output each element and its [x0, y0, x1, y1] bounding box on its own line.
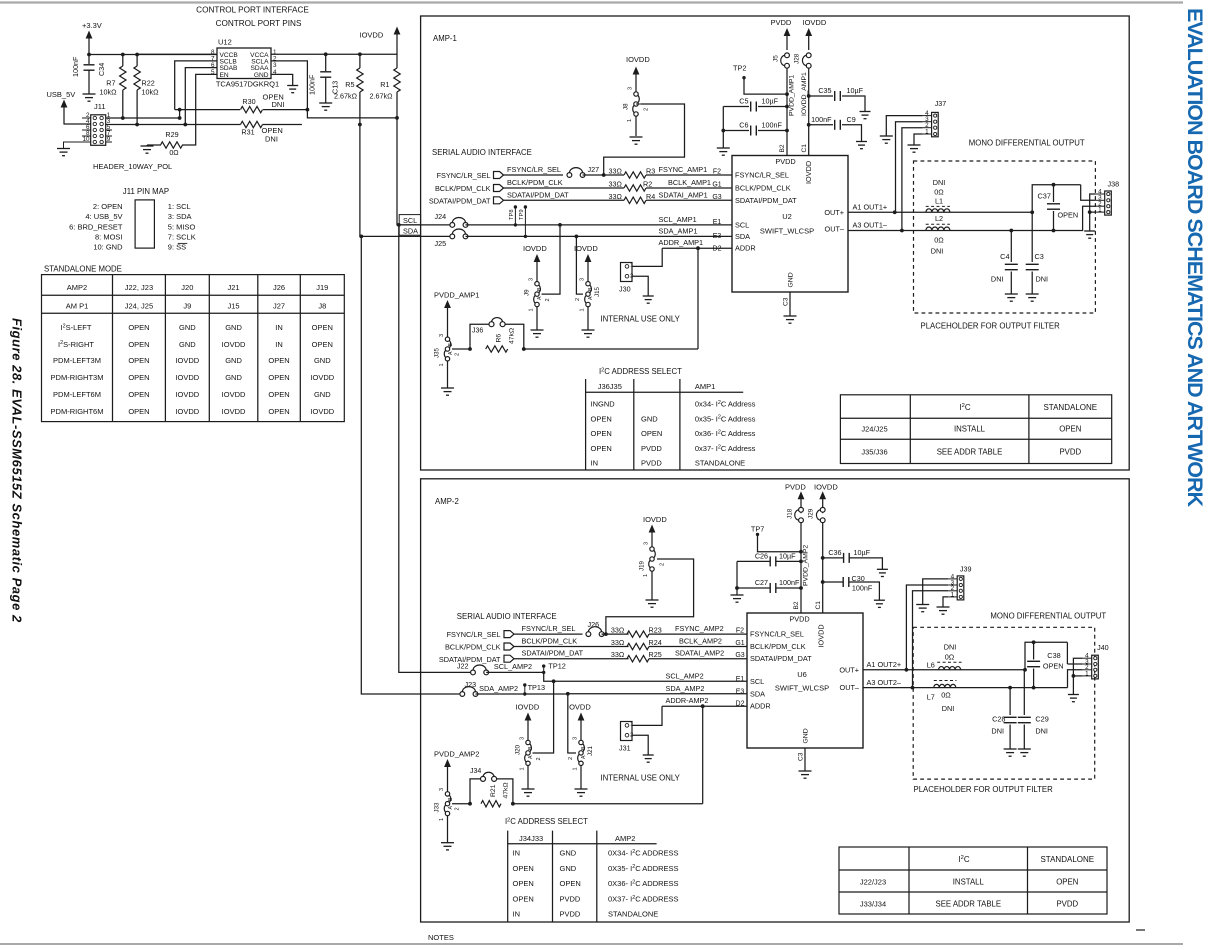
- svg-text:U12: U12: [218, 38, 232, 47]
- svg-text:PLACEHOLDER FOR OUTPUT FILTER: PLACEHOLDER FOR OUTPUT FILTER: [914, 785, 1054, 794]
- capacitor C35 10uF: [807, 94, 811, 98]
- svg-text:INSTALL: INSTALL: [953, 878, 985, 887]
- svg-text:SWIFT_WLCSP: SWIFT_WLCSP: [760, 227, 814, 236]
- svg-text:J22, J23: J22, J23: [125, 283, 153, 292]
- wire SDA jog to chip E3: [568, 693, 747, 695]
- svg-text:0x34- I2C Address: 0x34- I2C Address: [695, 400, 756, 409]
- svg-text:ADDR: ADDR: [735, 244, 756, 253]
- svg-text:DNI: DNI: [1036, 275, 1049, 284]
- svg-text:SCL_AMP2: SCL_AMP2: [494, 662, 532, 671]
- wire J40 pin2 from OUT2-: [1068, 670, 1083, 688]
- svg-text:3: 3: [573, 737, 579, 740]
- svg-text:J29: J29: [808, 508, 815, 519]
- svg-text:J26: J26: [588, 620, 600, 629]
- AMP-1 section box: [421, 16, 1130, 470]
- svg-text:SDATAI_AMP2: SDATAI_AMP2: [675, 649, 724, 658]
- svg-text:SCL: SCL: [735, 220, 749, 229]
- wire J37 pin3 to OUT1+: [896, 122, 923, 213]
- capacitor C30 100nF: [821, 580, 825, 584]
- svg-text:C4: C4: [1000, 252, 1009, 261]
- svg-text:IOVDD_AMP1: IOVDD_AMP1: [801, 72, 808, 116]
- svg-text:J30: J30: [619, 285, 631, 294]
- svg-text:0x37- I2C Address: 0x37- I2C Address: [695, 444, 756, 453]
- wire R30 row: [175, 109, 240, 111]
- svg-text:SDA: SDA: [750, 689, 765, 698]
- svg-text:3: 3: [439, 334, 445, 337]
- svg-text:DNI: DNI: [272, 100, 285, 109]
- wire SCL jog to chip E1: [544, 672, 747, 681]
- svg-text:ADDR_AMP1: ADDR_AMP1: [659, 238, 704, 247]
- svg-text:AMP1: AMP1: [695, 382, 715, 391]
- svg-text:J40: J40: [1097, 643, 1109, 652]
- svg-text:J24: J24: [435, 212, 447, 221]
- svg-text:OPEN: OPEN: [591, 429, 612, 438]
- svg-text:SDA: SDA: [735, 232, 750, 241]
- svg-text:J35: J35: [434, 347, 441, 358]
- svg-text:R5: R5: [345, 80, 354, 89]
- svg-text:OPEN: OPEN: [1058, 211, 1079, 220]
- svg-text:B: B: [528, 746, 534, 750]
- ground under C13: [319, 102, 332, 104]
- svg-text:G1: G1: [735, 640, 744, 647]
- svg-text:L1: L1: [935, 197, 943, 206]
- svg-text:INTERNAL USE ONLY: INTERNAL USE ONLY: [601, 315, 681, 324]
- svg-text:IOVDD: IOVDD: [574, 244, 598, 253]
- svg-text:100nF: 100nF: [779, 578, 800, 587]
- svg-text:A1 OUT2+: A1 OUT2+: [867, 660, 902, 669]
- wire U12 GND pin to ground: [271, 74, 293, 85]
- svg-text:CONTROL PORT PINS: CONTROL PORT PINS: [216, 19, 302, 28]
- svg-text:STANDALONE: STANDALONE: [695, 459, 745, 468]
- svg-text:1: 1: [630, 722, 633, 728]
- svg-text:NOTES: NOTES: [428, 933, 454, 942]
- svg-text:SCL: SCL: [750, 677, 764, 686]
- svg-text:A: A: [537, 296, 543, 300]
- svg-text:0X36- I2C ADDRESS: 0X36- I2C ADDRESS: [608, 879, 679, 888]
- svg-text:J36: J36: [472, 328, 483, 335]
- capacitor C29 DNI: [1023, 670, 1025, 715]
- svg-text:TP9: TP9: [519, 209, 525, 220]
- wire PVDD_AMP1 rail: [786, 68, 788, 156]
- svg-text:J33/J34: J33/J34: [860, 900, 886, 909]
- svg-text:STANDALONE MODE: STANDALONE MODE: [44, 265, 122, 274]
- svg-text:R1: R1: [380, 80, 389, 89]
- ground under J15: [587, 307, 589, 331]
- svg-text:J15: J15: [594, 286, 601, 297]
- wire SCL drop to AMP-2: [397, 223, 401, 227]
- wire OUT1+ from U2: [848, 211, 1032, 213]
- svg-text:IN: IN: [591, 459, 599, 468]
- svg-text:J26: J26: [273, 283, 285, 292]
- ground under J21: [580, 765, 582, 789]
- svg-text:100nF: 100nF: [852, 583, 873, 592]
- svg-text:CONTROL PORT INTERFACE: CONTROL PORT INTERFACE: [196, 6, 309, 15]
- resistor R24 33ohm: [514, 646, 629, 648]
- svg-text:PDM-LEFT3M: PDM-LEFT3M: [53, 356, 101, 365]
- svg-text:0x36- I2C Address: 0x36- I2C Address: [695, 429, 756, 438]
- svg-text:SERIAL AUDIO INTERFACE: SERIAL AUDIO INTERFACE: [457, 612, 557, 621]
- capacitor C34: [88, 55, 90, 65]
- svg-text:PVDD_AMP2: PVDD_AMP2: [803, 545, 810, 586]
- svg-text:OPEN: OPEN: [591, 414, 612, 423]
- svg-text:+3.3V: +3.3V: [82, 21, 102, 30]
- svg-text:47kΩ: 47kΩ: [503, 782, 510, 798]
- svg-text:GND: GND: [225, 356, 242, 365]
- svg-text:3: 3: [628, 87, 634, 90]
- svg-text:2: 2: [455, 807, 461, 810]
- wire SCL row from J11 pin1: [106, 117, 180, 119]
- svg-text:J18: J18: [787, 508, 794, 519]
- svg-text:BCLK/PDM_CLK: BCLK/PDM_CLK: [522, 637, 578, 646]
- svg-text:C34: C34: [97, 63, 106, 76]
- ground under J9: [536, 307, 538, 331]
- capacitor C6 100nF: [785, 129, 789, 133]
- svg-text:IOVDD: IOVDD: [222, 390, 246, 399]
- svg-text:3: 3: [580, 278, 586, 281]
- svg-text:R24: R24: [649, 638, 662, 647]
- svg-text:0Ω: 0Ω: [934, 188, 944, 197]
- wire J38 pins 4 and 1 to ground: [1090, 194, 1096, 231]
- ground under J19: [646, 599, 659, 601]
- svg-text:A1 OUT1+: A1 OUT1+: [853, 203, 888, 212]
- svg-text:A3 OUT2–: A3 OUT2–: [867, 678, 902, 687]
- svg-text:C36: C36: [828, 548, 841, 557]
- wire OUT2- from U6: [863, 687, 1068, 689]
- J11 pin map rectangle: [135, 200, 154, 248]
- svg-text:1: 1: [439, 363, 445, 366]
- svg-text:I2C: I2C: [958, 855, 969, 864]
- dashed placeholder box AMP2: [913, 627, 1094, 779]
- svg-text:6: BRD_RESET: 6: BRD_RESET: [69, 222, 123, 231]
- svg-text:1: 1: [439, 818, 445, 821]
- svg-text:OPEN: OPEN: [268, 407, 289, 416]
- AMP-2 section box: [421, 479, 1130, 922]
- svg-text:2: 2: [660, 563, 666, 566]
- jumper J18: [795, 510, 799, 520]
- svg-text:1: 1: [580, 308, 586, 311]
- svg-text:J34: J34: [470, 768, 481, 775]
- svg-text:B: B: [448, 797, 454, 801]
- svg-text:J39: J39: [960, 565, 972, 574]
- svg-text:INSTALL: INSTALL: [954, 425, 986, 434]
- resistor R29 0ohm: [161, 142, 183, 148]
- wire J30 pin1 to ADDR: [632, 248, 662, 266]
- resistor R2 33ohm: [504, 187, 625, 189]
- svg-text:SDATAI/PDM_DAT: SDATAI/PDM_DAT: [522, 649, 584, 658]
- wire SDA row from J11 pin3: [106, 124, 241, 126]
- svg-text:10µF: 10µF: [762, 97, 779, 106]
- op-amp U6 SWIFT_WLCSP: [747, 613, 863, 748]
- svg-text:C3: C3: [783, 297, 790, 306]
- svg-text:E1: E1: [713, 219, 722, 226]
- op-amp U2 SWIFT_WLCSP: [732, 156, 848, 293]
- svg-text:GND: GND: [179, 340, 196, 349]
- svg-text:BCLK/PDM_CLK: BCLK/PDM_CLK: [750, 642, 806, 651]
- svg-text:SDATAI/PDM_DAT: SDATAI/PDM_DAT: [750, 654, 812, 663]
- wire J9 tap to SCL: [542, 225, 561, 294]
- jumper J15 pull-up SDA: [590, 285, 592, 293]
- wire J30 pin2 to ground: [632, 276, 648, 296]
- wire J39 pin1 to ground: [943, 597, 948, 607]
- svg-text:PDM-RIGHT6M: PDM-RIGHT6M: [51, 407, 104, 416]
- svg-text:7: SCLK: 7: SCLK: [168, 232, 196, 241]
- svg-text:DNI: DNI: [991, 727, 1004, 736]
- J11 right stub wires pins 5 7 9: [106, 129, 112, 131]
- svg-text:PVDD: PVDD: [771, 18, 792, 27]
- svg-text:OPEN: OPEN: [128, 407, 149, 416]
- svg-text:33Ω: 33Ω: [609, 167, 623, 176]
- svg-text:2.67kΩ: 2.67kΩ: [370, 92, 394, 101]
- svg-text:10µF: 10µF: [779, 551, 796, 560]
- svg-text:F2: F2: [736, 628, 744, 635]
- wire J40 pins 4 and 1 to ground: [1073, 658, 1082, 694]
- resistor R22 10k: [135, 53, 139, 57]
- wire J8 to FSYNC net: [635, 116, 637, 136]
- svg-text:IN: IN: [275, 340, 283, 349]
- svg-text:DNI: DNI: [991, 275, 1004, 284]
- svg-text:10µF: 10µF: [847, 86, 864, 95]
- svg-text:G3: G3: [735, 652, 744, 659]
- wire J40 pin3 from C38 rail: [1066, 642, 1068, 664]
- jumper J27: [504, 174, 564, 176]
- svg-text:2: 2: [568, 757, 574, 760]
- svg-text:3: 3: [520, 737, 526, 740]
- svg-text:E3: E3: [736, 688, 745, 695]
- svg-text:R21: R21: [490, 784, 497, 797]
- svg-text:USB_5V: USB_5V: [47, 90, 76, 99]
- svg-text:D2: D2: [713, 246, 722, 253]
- svg-text:100nF: 100nF: [308, 74, 317, 95]
- svg-text:SDA_AMP2: SDA_AMP2: [666, 684, 705, 693]
- svg-text:4: USB_5V: 4: USB_5V: [85, 212, 122, 221]
- svg-text:GND: GND: [803, 728, 810, 743]
- svg-text:AM P1: AM P1: [66, 301, 89, 310]
- svg-text:AMP-1: AMP-1: [433, 34, 457, 43]
- svg-text:GND: GND: [254, 72, 269, 79]
- resistor R7 10k: [121, 53, 125, 57]
- svg-text:PVDD: PVDD: [1056, 900, 1078, 909]
- jumper J33: [449, 795, 451, 803]
- svg-text:8: MOSI: 8: MOSI: [95, 232, 123, 241]
- svg-text:C37: C37: [1038, 192, 1051, 201]
- svg-text:PVDD: PVDD: [1059, 448, 1081, 457]
- svg-text:GND: GND: [560, 864, 577, 873]
- svg-text:C35: C35: [818, 86, 831, 95]
- svg-text:I2S-RIGHT: I2S-RIGHT: [58, 340, 94, 349]
- node SCL box label: [399, 215, 420, 225]
- svg-text:1: 1: [573, 767, 579, 770]
- wire J39 pin2 to OUT2-: [913, 591, 949, 688]
- svg-text:IOVDD: IOVDD: [310, 373, 334, 382]
- connector J39: [957, 576, 964, 600]
- svg-text:L2: L2: [935, 214, 943, 223]
- svg-text:R4: R4: [646, 192, 655, 201]
- svg-text:C29: C29: [1035, 715, 1048, 724]
- svg-text:OPEN: OPEN: [513, 864, 534, 873]
- svg-text:AMP-2: AMP-2: [435, 497, 459, 506]
- svg-text:PVDD: PVDD: [560, 910, 581, 919]
- svg-text:FSYNC/LR_SEL: FSYNC/LR_SEL: [437, 171, 491, 180]
- jumper J8: [638, 95, 640, 103]
- svg-text:DNI: DNI: [1035, 727, 1048, 736]
- test point TP12: [542, 664, 545, 667]
- svg-text:J9: J9: [183, 301, 191, 310]
- capacitor C26 10uF: [799, 560, 803, 564]
- svg-text:J36J35: J36J35: [598, 382, 622, 391]
- svg-text:GND: GND: [225, 373, 242, 382]
- svg-text:OPEN: OPEN: [268, 390, 289, 399]
- wire OUT1- from U2: [848, 230, 1054, 232]
- wire ADDR to R6 row: [696, 246, 700, 250]
- svg-text:D2: D2: [736, 701, 745, 708]
- svg-text:OUT+: OUT+: [824, 208, 844, 217]
- svg-text:GND: GND: [641, 414, 658, 423]
- svg-text:SEE ADDR TABLE: SEE ADDR TABLE: [937, 448, 1003, 457]
- svg-text:A3 OUT1–: A3 OUT1–: [853, 221, 888, 230]
- svg-text:5: MISO: 5: MISO: [168, 222, 196, 231]
- svg-text:J11: J11: [94, 102, 106, 111]
- wire J39 pin3 to OUT2+: [906, 585, 948, 670]
- svg-text:SDA: SDA: [403, 226, 418, 235]
- svg-text:10µF: 10µF: [854, 548, 871, 557]
- resistor R4 33ohm: [504, 199, 625, 201]
- svg-text:FSYNC/LR_SEL: FSYNC/LR_SEL: [750, 630, 804, 639]
- svg-text:33Ω: 33Ω: [611, 638, 625, 647]
- svg-text:OPEN: OPEN: [1059, 425, 1081, 434]
- svg-text:DNI: DNI: [944, 643, 957, 652]
- svg-text:Figure 28. EVAL-SSM6515Z Schem: Figure 28. EVAL-SSM6515Z Schematic Page …: [10, 318, 25, 623]
- wire J38 pin3 from C37 rail: [1081, 185, 1096, 201]
- svg-text:100nF: 100nF: [811, 115, 832, 124]
- svg-text:B: B: [581, 746, 587, 750]
- capacitor C4 DNI: [1010, 231, 1012, 263]
- svg-text:B: B: [588, 287, 594, 291]
- svg-text:1: 1: [529, 308, 535, 311]
- svg-text:J27: J27: [273, 301, 285, 310]
- svg-text:J22/J23: J22/J23: [860, 878, 886, 887]
- wire U12 SCLB down to R30 row: [175, 61, 217, 110]
- capacitor C38 OPEN: [1025, 642, 1067, 670]
- svg-text:AMP2: AMP2: [615, 834, 635, 843]
- svg-text:DNI: DNI: [265, 135, 278, 144]
- jumper J26: [514, 633, 583, 635]
- jumper J29: [816, 510, 820, 520]
- svg-text:B2: B2: [793, 601, 800, 609]
- capacitor C5 10uF: [785, 105, 789, 109]
- svg-text:E1: E1: [736, 676, 745, 683]
- svg-text:OPEN: OPEN: [128, 390, 149, 399]
- wire +3.3V rail: [89, 54, 217, 56]
- svg-text:OPEN: OPEN: [312, 340, 333, 349]
- svg-text:33Ω: 33Ω: [609, 180, 623, 189]
- wire J37 pin1 to ground: [914, 134, 923, 145]
- svg-text:10: GND: 10: GND: [93, 243, 123, 252]
- svg-text:J24/J25: J24/J25: [861, 425, 887, 434]
- J11 pin10 wire to ground: [64, 142, 91, 149]
- svg-text:IOVDD: IOVDD: [804, 161, 813, 184]
- svg-text:J34J33: J34J33: [519, 834, 543, 843]
- node SDA box label: [399, 225, 420, 235]
- svg-text:10kΩ: 10kΩ: [100, 88, 118, 97]
- svg-text:OPEN: OPEN: [560, 879, 581, 888]
- svg-text:IOVDD: IOVDD: [626, 55, 650, 64]
- svg-text:R2: R2: [643, 180, 652, 189]
- svg-text:GND: GND: [225, 323, 242, 332]
- wire FSYNC to R3: [583, 174, 624, 176]
- svg-text:PDM-RIGHT3M: PDM-RIGHT3M: [51, 373, 104, 382]
- svg-text:SDATAI_AMP1: SDATAI_AMP1: [659, 190, 708, 199]
- svg-text:J19: J19: [639, 560, 646, 571]
- svg-text:C27: C27: [755, 578, 768, 587]
- svg-text:G3: G3: [712, 194, 721, 201]
- svg-text:IOVDD: IOVDD: [803, 18, 827, 27]
- svg-text:IOVDD: IOVDD: [360, 31, 384, 40]
- svg-text:0Ω: 0Ω: [941, 691, 951, 700]
- svg-text:R30: R30: [242, 97, 255, 106]
- wire U12 VCCB to rail: [137, 53, 217, 55]
- svg-text:OPEN: OPEN: [591, 444, 612, 453]
- svg-text:BCLK_AMP1: BCLK_AMP1: [668, 178, 711, 187]
- svg-text:47kΩ: 47kΩ: [509, 328, 516, 344]
- svg-text:J25: J25: [435, 239, 447, 248]
- svg-text:2: 2: [644, 108, 650, 111]
- svg-text:0x35- I2C Address: 0x35- I2C Address: [695, 414, 756, 423]
- svg-text:DNI: DNI: [942, 704, 955, 713]
- svg-text:R31: R31: [241, 128, 254, 137]
- svg-text:GND: GND: [314, 390, 331, 399]
- svg-text:OUT–: OUT–: [840, 683, 860, 692]
- svg-text:IOVDD: IOVDD: [222, 340, 246, 349]
- svg-text:PVDD: PVDD: [560, 894, 581, 903]
- svg-text:R25: R25: [649, 650, 662, 659]
- wire J38 pin2 from OUT1-: [1054, 206, 1096, 230]
- svg-text:J27: J27: [588, 165, 600, 174]
- svg-text:OPEN: OPEN: [513, 879, 534, 888]
- ground under J20: [527, 765, 529, 789]
- svg-text:IOVDD: IOVDD: [523, 244, 547, 253]
- svg-text:GND: GND: [788, 272, 795, 287]
- svg-text:J21: J21: [587, 745, 594, 756]
- test point TP13: [523, 683, 526, 686]
- svg-text:J24, J25: J24, J25: [125, 301, 153, 310]
- wire J21 tap to SDA: [568, 694, 576, 753]
- svg-text:PVDD_AMP2: PVDD_AMP2: [434, 750, 479, 759]
- svg-text:100nF: 100nF: [762, 121, 783, 130]
- connector J38: [1105, 191, 1112, 215]
- svg-text:OPEN: OPEN: [268, 373, 289, 382]
- svg-text:U2: U2: [782, 212, 792, 221]
- svg-text:SCL: SCL: [403, 216, 417, 225]
- svg-text:IOVDD: IOVDD: [516, 703, 540, 712]
- svg-text:1: 1: [643, 574, 649, 577]
- svg-text:0Ω: 0Ω: [169, 148, 179, 157]
- svg-text:J38: J38: [1108, 180, 1120, 189]
- capacitor C37 OPEN: [1032, 185, 1081, 213]
- jumper J28: [802, 55, 806, 65]
- svg-text:IOVDD: IOVDD: [814, 483, 838, 492]
- wire U12 SCLA to SCL net: [271, 61, 397, 118]
- svg-text:IOVDD: IOVDD: [175, 373, 199, 382]
- svg-text:FSYNC/LR_SEL: FSYNC/LR_SEL: [447, 630, 501, 639]
- svg-text:J5: J5: [773, 55, 780, 62]
- svg-text:C3: C3: [798, 752, 805, 761]
- svg-text:100nF: 100nF: [71, 56, 80, 77]
- ground left of R29: [147, 144, 161, 146]
- svg-text:J33: J33: [434, 802, 441, 813]
- svg-text:L6: L6: [927, 661, 935, 670]
- wire J33 middle to R21 row: [452, 803, 470, 805]
- wire R6 row to ADDR drop: [524, 348, 698, 350]
